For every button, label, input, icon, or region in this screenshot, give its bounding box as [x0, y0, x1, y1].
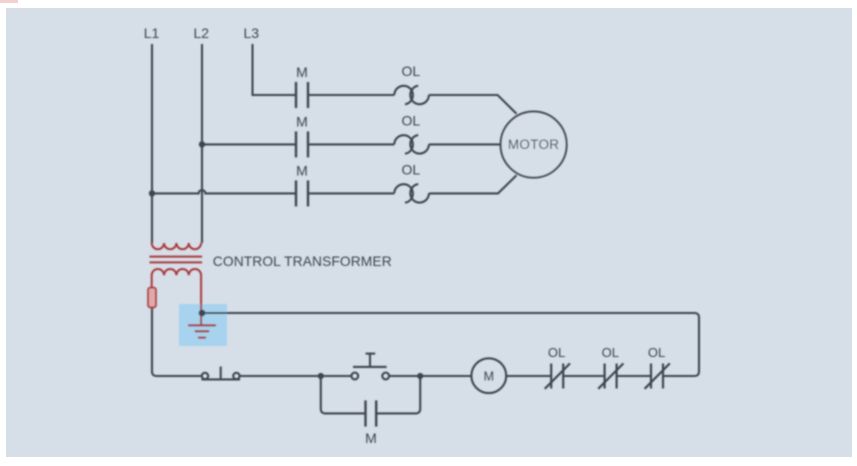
svg-text:M: M	[296, 162, 308, 178]
svg-text:M: M	[365, 430, 377, 446]
svg-text:OL: OL	[648, 345, 665, 360]
svg-text:M: M	[484, 370, 494, 384]
svg-text:M: M	[296, 64, 308, 80]
svg-text:L2: L2	[194, 25, 210, 41]
svg-text:L1: L1	[144, 25, 160, 41]
svg-text:OL: OL	[602, 345, 619, 360]
svg-text:L3: L3	[244, 25, 260, 41]
svg-text:OL: OL	[548, 345, 565, 360]
svg-text:OL: OL	[401, 161, 420, 177]
svg-text:MOTOR: MOTOR	[508, 137, 560, 152]
svg-text:M: M	[296, 113, 308, 129]
svg-text:OL: OL	[401, 112, 420, 128]
svg-text:OL: OL	[401, 63, 420, 79]
svg-text:CONTROL TRANSFORMER: CONTROL TRANSFORMER	[213, 254, 392, 269]
